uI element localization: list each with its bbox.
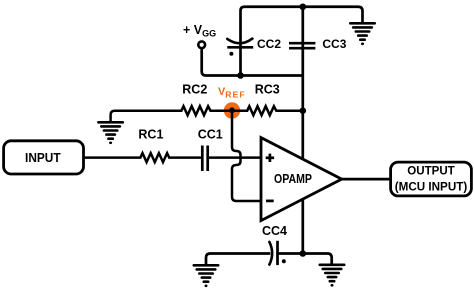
- node: junction dot bottom rail / vertical net: [300, 250, 307, 257]
- node: junction dot top rail / CC3: [300, 3, 307, 10]
- capacitor CC2: straight bottom plate: [227, 46, 253, 49]
- wire: reference row with RC2 and RC3 zigzags, left corner down to ground: [111, 106, 303, 121]
- node VREF: center dot: [229, 107, 235, 113]
- wire: opamp output to OUTPUT box: [342, 178, 391, 181]
- capacitor CC4: polarity dot: [282, 259, 286, 263]
- ground: bottom right: [320, 265, 344, 286]
- terminal: VGG open circle: [198, 41, 205, 48]
- svg-text:CC3: CC3: [322, 37, 346, 51]
- box: INPUT: [4, 141, 84, 174]
- node: junction dot RC3 right / vertical net: [300, 107, 307, 114]
- wire: bottom rail right segment from CC4 to right ground drop: [278, 254, 332, 264]
- svg-text:CC4: CC4: [262, 224, 287, 238]
- wire: VREF down with crossover jog to opamp inverting input: [232, 111, 261, 202]
- svg-text:OPAMP: OPAMP: [274, 172, 312, 186]
- capacitor CC4: straight right plate: [276, 241, 279, 265]
- svg-text:RC3: RC3: [255, 82, 280, 96]
- svg-text:INPUT: INPUT: [25, 150, 61, 165]
- wire: VGG terminal down and right along VGG rail to vertical net: [202, 48, 302, 75]
- svg-text:RC2: RC2: [182, 82, 207, 96]
- capacitor CC4 (polarized): curved left plate: [269, 242, 272, 265]
- wire: CC1 to opamp non-inverting input: [209, 156, 261, 159]
- capacitor CC2 (polarized): curved top plate: [227, 39, 252, 44]
- capacitor CC1: right plate: [206, 146, 209, 172]
- svg-text:CC2: CC2: [257, 37, 281, 51]
- wire: vertical net from top rail through CC3, RC3 node, behind opamp to bottom rail: [301, 7, 304, 254]
- svg-text:CC1: CC1: [198, 128, 223, 142]
- svg-text:(MCU INPUT): (MCU INPUT): [395, 180, 468, 194]
- op-amp: minus input marker: [266, 200, 274, 203]
- capacitor CC1: left plate: [201, 146, 204, 172]
- wire: bottom rail left segment to CC4 curved plate: [206, 254, 270, 265]
- box: OUTPUT (MCU INPUT): [391, 162, 472, 196]
- wire: top rail from CC2 top to top-right ground drop: [241, 7, 363, 76]
- node VREF: orange disc: [224, 102, 240, 118]
- node: junction dot CC2 bottom on VGG rail: [237, 72, 244, 79]
- svg-text:OUTPUT: OUTPUT: [407, 164, 455, 178]
- capacitor CC2: polarity dot: [229, 52, 233, 56]
- op-amp U1: triangle body: [261, 138, 342, 221]
- ground: top right: [350, 23, 374, 44]
- op-amp: plus input marker: [266, 154, 274, 162]
- wire: input row with RC1 zigzag to CC1 left plate: [85, 153, 201, 162]
- ground: bottom left: [194, 265, 218, 286]
- capacitor CC3: bottom plate: [289, 47, 315, 50]
- ground: left (below RC2 row): [98, 122, 122, 143]
- capacitor CC3: top plate: [289, 42, 315, 45]
- svg-text:RC1: RC1: [138, 128, 163, 142]
